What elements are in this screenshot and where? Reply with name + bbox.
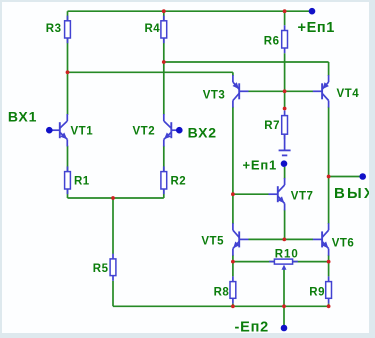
svg-text:R1: R1 (74, 176, 90, 188)
svg-text:ВХ2: ВХ2 (188, 125, 217, 141)
svg-text:R6: R6 (264, 35, 280, 47)
svg-text:R4: R4 (145, 23, 161, 35)
svg-text:R10: R10 (275, 248, 299, 260)
svg-text:+Еп1: +Еп1 (243, 157, 278, 172)
svg-text:VT5: VT5 (201, 235, 224, 247)
svg-text:R5: R5 (93, 263, 109, 275)
svg-text:VT3: VT3 (203, 90, 226, 102)
svg-text:R9: R9 (309, 286, 325, 298)
svg-text:R2: R2 (171, 176, 187, 188)
svg-text:R7: R7 (264, 120, 280, 132)
svg-text:VT1: VT1 (71, 125, 94, 137)
svg-text:R8: R8 (214, 286, 230, 298)
svg-text:VT4: VT4 (337, 88, 360, 100)
svg-text:VT6: VT6 (332, 238, 355, 250)
svg-text:+Еп1: +Еп1 (298, 20, 335, 36)
svg-text:ВХ1: ВХ1 (8, 108, 37, 124)
svg-text:R3: R3 (46, 23, 62, 35)
svg-text:VT2: VT2 (133, 126, 156, 138)
svg-text:VT7: VT7 (291, 191, 314, 203)
